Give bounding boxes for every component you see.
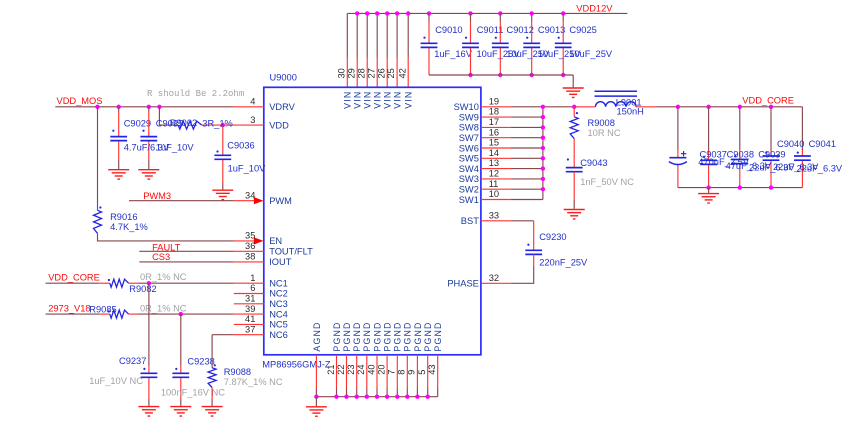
wire PWM3 [129,200,254,202]
junction ground rail [334,395,338,399]
svg-text:NC3: NC3 [269,299,288,309]
resistor R9016 [94,210,102,233]
svg-text:VIN: VIN [343,91,353,109]
wire NC5 stub [234,323,264,325]
svg-text:33: 33 [489,210,499,220]
svg-text:PGND: PGND [342,321,352,351]
junction output rail [738,185,742,189]
svg-text:14: 14 [489,148,499,158]
svg-text:1uF_16V: 1uF_16V [434,49,473,59]
wire PGND pin 5 [427,355,429,397]
wire R9008 top stub [573,107,575,117]
svg-text:SW3: SW3 [459,174,479,184]
svg-text:SW8: SW8 [459,123,479,133]
wire PGND pin 7 [396,355,398,397]
svg-text:C9040: C9040 [777,139,804,149]
svg-text:VIN: VIN [404,91,414,109]
ground C9036 [212,190,233,199]
junction VDD_MOS [95,105,99,109]
junction ground rail [385,395,389,399]
capacitor C9039 [731,160,748,164]
capacitor C9230 [525,250,542,254]
svg-text:9: 9 [407,370,417,375]
svg-text:PGND: PGND [332,321,342,351]
svg-text:PGND: PGND [433,321,443,351]
ground AGND [306,407,327,416]
wire AGND pin [315,355,317,397]
junction bottom [498,73,502,77]
svg-text:C9011: C9011 [477,25,504,35]
wire C9011 branch [470,13,472,75]
wire VDD_MOS rail [55,106,263,108]
resistor R9008 [570,117,578,139]
svg-text:VIN: VIN [373,91,383,109]
svg-text:6: 6 [250,283,255,293]
wire AGND to ground [315,397,317,407]
svg-text:CS3: CS3 [152,252,170,262]
junction bottom [530,73,534,77]
wire R9082 to NC1 [129,282,264,284]
svg-text:U9000: U9000 [270,72,297,82]
wire PGND pin 23 [356,355,358,397]
ground C9238 [170,407,191,416]
wire C9237 branch [148,283,150,406]
svg-text:MP86956GMJ-Z: MP86956GMJ-Z [262,360,331,370]
wire C9043 to ground [573,172,575,209]
svg-text:NC1: NC1 [269,278,288,288]
junction C9237 tap [147,281,151,285]
pin arrow EN [254,237,264,244]
junction C9011 top [468,11,472,15]
svg-text:C9230: C9230 [539,232,566,242]
junction VDD_CORE rail [676,105,680,109]
svg-text:23: 23 [346,364,356,374]
capacitor C9029 [110,137,127,141]
wire R9088 branch top [211,335,213,368]
svg-text:SW4: SW4 [459,164,479,174]
wire FAULT [139,250,263,252]
svg-text:PGND: PGND [352,321,362,351]
svg-text:AGND: AGND [312,321,322,351]
capacitor C9012 [492,43,509,47]
svg-text:15: 15 [489,138,499,148]
capacitor C9040 [763,156,780,160]
junction [375,11,379,15]
svg-text:10: 10 [489,189,499,199]
junction [406,11,410,15]
wire C9012 branch [499,13,501,75]
svg-text:35: 35 [245,231,255,241]
capacitor C9011 [462,43,479,47]
svg-text:VIN: VIN [353,91,363,109]
svg-text:11: 11 [489,179,499,189]
wire BST pin 33 [481,220,534,222]
svg-text:SW10: SW10 [454,102,479,112]
junction ground rail [365,395,369,399]
svg-text:30: 30 [336,68,346,78]
wire VDD branch down [159,107,178,125]
resistor R9085 [110,310,129,318]
svg-text:TOUT/FLT: TOUT/FLT [269,247,313,257]
junction VDD_CORE rail [769,105,773,109]
svg-text:0R_1% NC: 0R_1% NC [140,304,187,314]
ground C9035 [138,170,159,179]
svg-text:36: 36 [245,241,255,251]
wire C9025 branch [562,13,564,75]
junction C9036 tap [221,123,225,127]
wire SW1 pin 10 [481,199,543,201]
wire SW to inductor [574,106,595,108]
junction output rail [769,185,773,189]
junction ground rail [426,395,430,399]
wire SW5 pin 14 [481,157,543,159]
wire SW4 pin 13 [481,168,543,170]
wire PGND pin 43 [437,355,439,397]
svg-text:22uF_6.3V: 22uF_6.3V [797,163,843,173]
svg-text:PGND: PGND [413,321,423,351]
svg-text:7.87K_1% NC: 7.87K_1% NC [224,377,283,387]
svg-text:SW5: SW5 [459,154,479,164]
resistor R9002 [178,121,202,129]
junction SW bus [541,156,545,160]
svg-text:C9039: C9039 [758,149,785,159]
wire bottom ground rail [316,396,437,398]
capacitor C9037 (polarized) [669,151,687,165]
junction bottom [561,73,565,77]
svg-text:PGND: PGND [383,321,393,351]
svg-text:29: 29 [346,68,356,78]
svg-text:C9036: C9036 [227,140,254,150]
capacitor C9013 [523,43,540,47]
svg-text:PGND: PGND [362,321,372,351]
junction C9012 top [498,11,502,15]
IC U9000 MP86956 body [264,87,481,355]
junction [365,11,369,15]
svg-text:VDD_CORE: VDD_CORE [742,96,794,106]
wire VDD12V bus [347,12,627,14]
wire NC2 stub [234,293,264,295]
svg-text:VIN: VIN [363,91,373,109]
wire C9039 branch [739,107,741,188]
svg-text:NC2: NC2 [269,289,288,299]
wire VIN pin 26 vertical [386,13,388,87]
svg-text:41: 41 [245,314,255,324]
ground C9237 [138,407,159,416]
wire C9041 branch [801,107,803,188]
svg-text:PHASE: PHASE [447,279,479,289]
svg-text:21: 21 [326,364,336,374]
svg-text:1uF_10V NC: 1uF_10V NC [89,376,143,386]
capacitor C9238 [172,373,189,377]
svg-text:SW9: SW9 [459,112,479,122]
wire to output ground [708,188,710,194]
wire R9008 to C9043 [573,139,575,168]
wire SW9 pin 18 [481,116,543,118]
wire C9037 branch [677,107,679,188]
svg-text:SW2: SW2 [459,185,479,195]
svg-text:3: 3 [250,115,255,125]
junction ground rail [405,395,409,399]
svg-text:C9025: C9025 [569,25,596,35]
wire VIN pin 28 vertical [366,13,368,87]
svg-text:R should Be 2.2ohm: R should Be 2.2ohm [147,89,244,99]
svg-text:NC6: NC6 [269,330,288,340]
svg-text:VDRV: VDRV [269,102,295,112]
wire C9038 branch [708,107,710,188]
junction ground rail [355,395,359,399]
wire VIN pin 29 vertical [356,13,358,87]
junction SW bus [541,187,545,191]
svg-text:C9029: C9029 [124,119,151,129]
inductor L9001 [595,91,638,107]
wire CS3 [139,261,263,263]
wire EN stub [234,240,255,242]
svg-text:7: 7 [387,370,397,375]
svg-text:12: 12 [489,169,499,179]
wire R9088 to ground [211,388,213,406]
svg-text:32: 32 [489,273,499,283]
svg-text:C9013: C9013 [538,25,565,35]
svg-text:PGND: PGND [423,321,433,351]
svg-text:C9237: C9237 [119,356,146,366]
resistor R9082 [110,279,129,287]
wire inductor to VDD_CORE [636,106,678,108]
wire PGND pin 8 [406,355,408,397]
capacitor C9237 [141,373,158,377]
wire C9010 branch [428,13,430,75]
svg-text:43: 43 [427,364,437,374]
wire VDD_CORE to R9082 [46,282,110,284]
svg-text:19: 19 [489,96,499,106]
wire R9016 to EN [98,233,234,241]
svg-text:VDD12V: VDD12V [576,4,613,14]
svg-text:28: 28 [356,68,366,78]
svg-text:VDD: VDD [269,120,289,130]
svg-text:VIN: VIN [383,91,393,109]
svg-text:C9043: C9043 [580,158,607,168]
wire SW3 pin 12 [481,178,543,180]
wire PGND pin 21 [336,355,338,397]
wire input caps bottom rail [429,74,573,76]
svg-text:SW7: SW7 [459,133,479,143]
wire SW8 pin 17 [481,126,543,128]
junction VDD_CORE rail [738,105,742,109]
svg-text:PGND: PGND [372,321,382,351]
junction VDD_CORE rail [706,105,710,109]
wire VIN pin 42 vertical [407,13,409,87]
wire C9238 branch [180,314,182,406]
wire C9029 branch [118,107,120,170]
ground output caps [698,194,719,203]
svg-text:EN: EN [269,236,282,246]
svg-text:22: 22 [336,364,346,374]
svg-text:PWM3: PWM3 [143,191,171,201]
wire PGND pin 22 [346,355,348,397]
wire R9002 to VDD pin [202,124,264,126]
svg-text:27: 27 [366,68,376,78]
svg-text:VDD_MOS: VDD_MOS [57,96,103,106]
svg-text:26: 26 [376,68,386,78]
junction SW bus [541,115,545,119]
wire C9230 to PHASE [533,254,535,266]
svg-text:150nH: 150nH [617,107,644,117]
wire PGND pin 40 [376,355,378,397]
svg-text:25: 25 [386,68,396,78]
junction bottom [468,73,472,77]
svg-text:17: 17 [489,117,499,127]
wire R9016 branch [97,107,99,211]
svg-text:5: 5 [417,370,427,375]
svg-text:42: 42 [397,68,407,78]
svg-text:2973_V18: 2973_V18 [48,304,90,314]
junction C9025 top [561,11,565,15]
ground R9088 [202,407,223,416]
junction ground rail [375,395,379,399]
capacitor C9036 [214,155,231,159]
junction ground rail [314,395,318,399]
svg-text:1uF_10V: 1uF_10V [228,164,267,174]
svg-text:R9016: R9016 [110,212,137,222]
wire VIN pin 25 vertical [396,13,398,87]
svg-text:8: 8 [397,370,407,375]
junction C9010 top [427,11,431,15]
wire VDD_CORE rail [678,106,803,108]
svg-text:C9010: C9010 [435,25,462,35]
svg-text:PWM: PWM [269,196,292,206]
svg-text:C9238: C9238 [187,356,214,366]
svg-text:R9088: R9088 [224,367,251,377]
wire PHASE stub [481,282,511,284]
capacitor C9041 [794,156,811,160]
wire PGND pin 20 [386,355,388,397]
capacitor C9025 [555,43,572,47]
svg-text:18: 18 [489,107,499,117]
wire NC3 stub [234,303,264,305]
svg-text:3R_1%: 3R_1% [202,118,233,128]
pin arrow PWM [254,197,264,204]
svg-text:SW6: SW6 [459,143,479,153]
svg-text:NC5: NC5 [269,320,288,330]
wire C9036 branch [222,125,224,190]
wire PGND pin 24 [366,355,368,397]
junction R9008 tap [572,105,576,109]
junction SW bus [541,166,545,170]
svg-text:37: 37 [245,324,255,334]
ground C9043 [564,210,585,219]
svg-text:BST: BST [461,216,479,226]
wire VIN pin 27 vertical [376,13,378,87]
svg-text:PGND: PGND [393,321,403,351]
svg-text:13: 13 [489,158,499,168]
svg-text:0R_1% NC: 0R_1% NC [140,272,187,282]
svg-text:C9041: C9041 [809,139,836,149]
wire SW10 pin 19 [481,106,574,108]
junction SW bus [541,125,545,129]
junction [355,11,359,15]
svg-text:220nF_25V: 220nF_25V [539,258,588,268]
svg-text:38: 38 [245,252,255,262]
junction SW bus [541,146,545,150]
wire NC6 from R9088 [212,334,264,336]
svg-text:24: 24 [356,364,366,374]
wire C9035 branch [148,107,150,170]
svg-text:R9008: R9008 [588,118,615,128]
svg-text:R9082: R9082 [129,284,156,294]
junction [385,11,389,15]
svg-text:R9002: R9002 [170,118,197,128]
wire to input ground [572,75,574,88]
capacitor C9010 [421,43,438,47]
svg-text:39: 39 [245,304,255,314]
svg-text:PGND: PGND [403,321,413,351]
svg-text:40: 40 [366,364,376,374]
svg-text:4.7K_1%: 4.7K_1% [110,222,148,232]
svg-text:VDD_CORE: VDD_CORE [48,272,100,282]
svg-text:4: 4 [250,97,255,107]
resistor R9088 [208,368,216,388]
junction [395,11,399,15]
svg-text:VIN: VIN [393,91,403,109]
wire output caps bottom rail [678,187,803,189]
capacitor C9035 [140,137,157,141]
junction VDD_MOS [147,105,151,109]
junction C9238 tap [179,312,183,316]
ground C9029 [108,170,129,179]
junction VDD_MOS [157,105,161,109]
wire BST down to C9230 [533,221,535,251]
svg-text:IOUT: IOUT [269,257,292,267]
svg-text:31: 31 [245,294,255,304]
junction VDD_MOS [117,105,121,109]
wire SW2 pin 11 [481,188,543,190]
junction output rail [706,185,710,189]
svg-text:10uF_25V: 10uF_25V [569,49,613,59]
junction ground rail [395,395,399,399]
junction C9013 top [530,11,534,15]
svg-text:C9012: C9012 [507,25,534,35]
junction SW bus [541,105,545,109]
wire C9013 branch [531,13,533,75]
svg-text:100nF_16V NC: 100nF_16V NC [161,387,225,397]
svg-text:NC4: NC4 [269,309,288,319]
wire C9040 branch [770,107,772,188]
svg-text:10R NC: 10R NC [588,128,621,138]
wire SW7 pin 16 [481,137,543,139]
svg-text:16: 16 [489,127,499,137]
svg-text:1nF_50V NC: 1nF_50V NC [580,177,634,187]
wire R9085 to NC4 [129,313,264,315]
svg-text:SW1: SW1 [459,195,479,205]
junction ground rail [344,395,348,399]
ground input caps [563,88,584,97]
junction ground rail [415,395,419,399]
svg-text:1uF_10V: 1uF_10V [156,142,195,152]
junction SW bus [541,136,545,140]
svg-text:34: 34 [245,190,255,200]
svg-text:20: 20 [376,364,386,374]
svg-text:1: 1 [250,273,255,283]
wire 2973_V18 to R9085 [46,313,110,315]
wire SW6 pin 15 [481,147,543,149]
wire VIN pin 30 vertical [346,13,348,87]
capacitor C9043 [566,168,583,172]
junction SW bus [541,177,545,181]
wire PGND pin 9 [416,355,418,397]
capacitor C9038 [700,160,717,164]
wire SW bus vertical [542,107,544,200]
